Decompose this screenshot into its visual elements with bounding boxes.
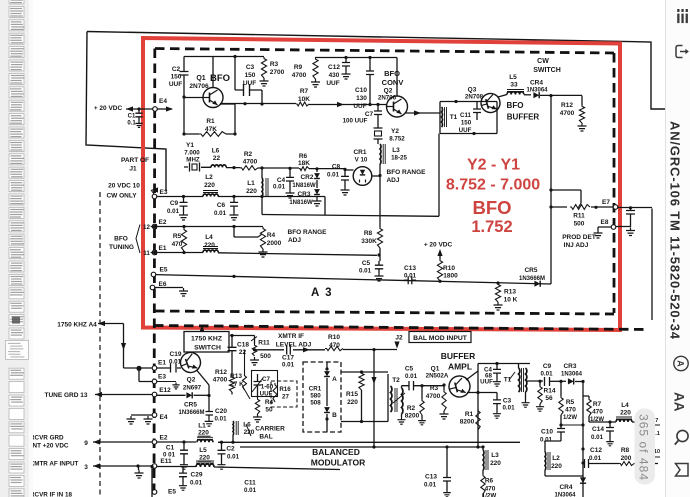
- svg-text:4700: 4700: [426, 393, 441, 400]
- svg-text:365 of 484: 365 of 484: [637, 414, 651, 480]
- svg-text:R8: R8: [364, 230, 373, 237]
- junction: [182, 195, 185, 198]
- wire top rail to Q2 collector: [315, 57, 397, 59]
- svg-text:8200: 8200: [460, 419, 475, 426]
- svg-text:R8: R8: [621, 447, 630, 454]
- wire Q1 box top: [184, 56, 264, 58]
- svg-text:200: 200: [621, 455, 632, 462]
- svg-text:C14: C14: [592, 426, 604, 433]
- svg-text:18K: 18K: [298, 160, 310, 167]
- svg-text:220: 220: [620, 410, 631, 417]
- wire Q1 box left: [183, 90, 185, 134]
- junction: [581, 447, 584, 450]
- svg-text:4700: 4700: [213, 377, 228, 384]
- ground: [536, 404, 544, 411]
- junction: [182, 225, 185, 228]
- svg-text:ANT +20 VDC: ANT +20 VDC: [28, 443, 69, 450]
- svg-text:0.1: 0.1: [127, 121, 136, 127]
- svg-text:220: 220: [204, 242, 215, 249]
- svg-text:Y2: Y2: [391, 128, 399, 135]
- wire E6 to ground: [155, 287, 183, 289]
- svg-text:C20: C20: [215, 408, 227, 415]
- junction: [360, 370, 363, 373]
- svg-text:0.01: 0.01: [540, 437, 553, 444]
- svg-text:L3: L3: [392, 147, 400, 154]
- svg-text:220: 220: [347, 399, 358, 406]
- wire 1750 box to C18/R11: [230, 335, 255, 337]
- junction: [559, 423, 562, 426]
- svg-text:0.01: 0.01: [424, 482, 437, 489]
- svg-text:4700: 4700: [560, 110, 575, 117]
- svg-text:LEVEL ADJ: LEVEL ADJ: [276, 342, 312, 349]
- svg-text:R10: R10: [328, 334, 340, 341]
- svg-text:220: 220: [199, 455, 210, 462]
- svg-text:MHZ: MHZ: [186, 157, 200, 164]
- svg-text:R12: R12: [215, 369, 227, 376]
- svg-text:L1: L1: [247, 180, 255, 187]
- svg-text:C3: C3: [246, 64, 255, 71]
- svg-text:0.01: 0.01: [591, 434, 604, 441]
- ground: [493, 411, 501, 418]
- svg-text:1N3064: 1N3064: [554, 493, 576, 497]
- svg-text:C3: C3: [503, 398, 512, 405]
- ground: [594, 230, 603, 238]
- wire branch to E3 (lower): [139, 368, 152, 381]
- 1750 KHZ SWITCH box: [184, 332, 229, 353]
- svg-text:56: 56: [545, 395, 553, 402]
- svg-text:100 UUF: 100 UUF: [343, 118, 368, 125]
- trimmer C7 (lower): [252, 371, 278, 397]
- svg-text:SWITCH: SWITCH: [194, 345, 221, 352]
- wire T1 secondary out: [526, 380, 543, 382]
- wire Q1buf collector rail: [478, 363, 530, 365]
- junction: [232, 275, 235, 278]
- feedthrough capacitor: [630, 208, 632, 210]
- junction: [233, 55, 236, 58]
- svg-text:C11: C11: [244, 480, 256, 487]
- svg-text:220: 220: [198, 430, 209, 437]
- svg-text:R14: R14: [544, 388, 556, 395]
- junction: [372, 348, 375, 351]
- svg-text:E2: E2: [160, 435, 168, 442]
- outer dashed boundary: [154, 326, 649, 330]
- ground: [493, 379, 501, 386]
- svg-text:E3: E3: [160, 189, 168, 196]
- svg-text:12: 12: [143, 224, 150, 231]
- wire Q2 collector: [396, 58, 398, 97]
- svg-text:0.01: 0.01: [282, 362, 295, 369]
- wire +20VDC to E4: [126, 108, 153, 110]
- svg-text:UUF: UUF: [480, 379, 493, 386]
- ground: [440, 411, 449, 419]
- ground: [311, 79, 320, 87]
- svg-text:500: 500: [574, 221, 585, 228]
- junction: [253, 348, 256, 351]
- wire Q1 base: [184, 97, 203, 99]
- svg-text:R13: R13: [230, 373, 242, 380]
- wire pin3 rail: [93, 466, 340, 470]
- junction: [442, 383, 445, 386]
- svg-text:A: A: [676, 360, 686, 367]
- ground: [313, 198, 322, 206]
- svg-text:Y2 - Y1: Y2 - Y1: [467, 157, 520, 174]
- svg-text:E8: E8: [601, 219, 609, 226]
- svg-text:470: 470: [592, 409, 603, 416]
- terminal E7: [613, 205, 618, 210]
- junction: [476, 391, 479, 394]
- wire main bus Q1-Q2: [220, 104, 386, 105]
- ground: [250, 357, 259, 365]
- terminal E5: [151, 272, 156, 277]
- balanced modulator dashed box: [303, 362, 341, 432]
- svg-text:L3: L3: [491, 452, 499, 459]
- grounds at E4 row: [152, 413, 157, 418]
- svg-text:2N708: 2N708: [465, 94, 484, 101]
- wire 1750kHz to E1: [98, 321, 105, 326]
- svg-text:C1: C1: [128, 114, 136, 120]
- svg-text:L1: L1: [198, 423, 206, 430]
- junction: [454, 100, 457, 103]
- bracket: [136, 225, 140, 254]
- svg-text:CR2: CR2: [300, 174, 313, 181]
- junction: [368, 56, 371, 59]
- svg-text:CR5: CR5: [184, 402, 197, 409]
- svg-text:11: 11: [143, 250, 150, 257]
- svg-text:C13: C13: [425, 474, 437, 481]
- junction: [260, 102, 263, 105]
- ground: [179, 288, 188, 296]
- svg-text:T2: T2: [392, 377, 400, 384]
- svg-text:+ 20 VDC: + 20 VDC: [424, 242, 453, 249]
- svg-text:L2: L2: [205, 174, 213, 181]
- svg-text:150: 150: [245, 72, 256, 79]
- junction: [376, 103, 379, 106]
- svg-text:2N706: 2N706: [378, 95, 397, 102]
- junction: [182, 132, 185, 135]
- svg-text:0.01: 0.01: [502, 405, 515, 412]
- ground: [626, 228, 635, 236]
- wire T1 box to lower rail: [262, 134, 439, 217]
- svg-text:L6: L6: [243, 422, 251, 429]
- svg-text:L2: L2: [552, 455, 560, 462]
- ground: [179, 483, 187, 490]
- junction: [182, 95, 185, 98]
- svg-text:1.752: 1.752: [471, 218, 512, 236]
- junction: [137, 107, 140, 110]
- wire XMTR IF rail: [255, 349, 398, 351]
- junction: [368, 103, 371, 106]
- ground: [342, 71, 351, 79]
- svg-text:580: 580: [310, 393, 321, 400]
- svg-text:Q1: Q1: [196, 75, 205, 82]
- svg-text:SWITCH: SWITCH: [533, 67, 561, 74]
- svg-text:470: 470: [172, 241, 183, 248]
- wire E7 out to page edge: [618, 208, 652, 321]
- junction: [344, 56, 347, 59]
- svg-text:C7: C7: [262, 376, 270, 383]
- wire vertical rail to prod det: [550, 96, 552, 284]
- junction: [495, 362, 498, 365]
- svg-text:C10: C10: [355, 87, 367, 94]
- svg-text:C9: C9: [170, 200, 179, 207]
- wire Q2 emitter to C20 node: [197, 371, 209, 397]
- svg-text:CR4: CR4: [559, 484, 572, 491]
- junction: [233, 132, 236, 135]
- connector J1 dashed line: [99, 192, 101, 497]
- wire bottom rail w/ C12 and R8: [583, 463, 584, 465]
- svg-text:ADJ: ADJ: [288, 237, 301, 244]
- svg-text:22: 22: [239, 349, 247, 356]
- junction: [549, 205, 552, 208]
- ground: [135, 121, 142, 127]
- svg-text:220: 220: [551, 463, 562, 470]
- junction: [481, 445, 484, 448]
- svg-text:R16: R16: [279, 386, 291, 393]
- svg-text:0.01: 0.01: [405, 373, 418, 380]
- wire T1-C11 box: [440, 102, 497, 134]
- svg-text:CONV: CONV: [382, 78, 404, 87]
- red annotation box: [143, 38, 620, 330]
- page count pill: [635, 409, 656, 485]
- svg-text:R5: R5: [173, 233, 182, 240]
- svg-text:Q2: Q2: [187, 377, 196, 384]
- junction: [472, 132, 475, 135]
- junction: [360, 420, 363, 423]
- terminal E6: [150, 285, 155, 290]
- terminal E5 (lower): [152, 490, 157, 495]
- svg-text:E11: E11: [160, 458, 172, 465]
- svg-text:0.01: 0.01: [190, 480, 203, 487]
- svg-text:3: 3: [84, 464, 88, 471]
- svg-text:CR1: CR1: [353, 149, 366, 156]
- junction: [136, 366, 141, 371]
- svg-text:1N3064: 1N3064: [526, 88, 548, 94]
- junction: [378, 174, 381, 177]
- junction: [372, 445, 375, 448]
- svg-text:L4: L4: [621, 402, 629, 409]
- svg-text:R11: R11: [258, 340, 270, 347]
- svg-text:J2: J2: [395, 335, 403, 342]
- svg-text:0.01: 0.01: [540, 371, 553, 378]
- svg-text:TUNING: TUNING: [109, 244, 134, 251]
- svg-text:220: 220: [204, 182, 215, 189]
- svg-text:R7: R7: [300, 88, 309, 95]
- ground: [253, 414, 262, 422]
- svg-text:R15: R15: [346, 391, 358, 398]
- junction: [549, 188, 552, 191]
- svg-text:C17: C17: [282, 355, 294, 362]
- wire pin10 to E3: [151, 187, 158, 192]
- svg-text:R5: R5: [566, 399, 575, 406]
- terminal E11: [152, 464, 157, 469]
- svg-text:CW: CW: [537, 58, 549, 65]
- svg-text:0.01: 0.01: [214, 210, 227, 217]
- junction: [594, 206, 597, 209]
- terminal E3: [152, 194, 157, 199]
- svg-text:E1: E1: [158, 360, 166, 367]
- svg-text:1N816W: 1N816W: [292, 183, 316, 189]
- svg-text:CR5: CR5: [524, 267, 537, 274]
- ground: [180, 462, 188, 469]
- svg-text:BFO RANGE: BFO RANGE: [387, 169, 427, 176]
- svg-text:BFO: BFO: [384, 69, 400, 78]
- svg-text:R11: R11: [573, 213, 585, 220]
- junction: [243, 102, 246, 105]
- svg-text:CR3: CR3: [563, 363, 576, 370]
- wire Q2sw collector up: [190, 351, 192, 354]
- wire bottom rail: [240, 446, 484, 448]
- junction: [420, 384, 423, 387]
- ground: [606, 439, 614, 446]
- svg-text:L5: L5: [509, 74, 517, 81]
- terminal E1: [152, 250, 157, 255]
- svg-text:UUF: UUF: [459, 127, 472, 134]
- svg-text:R3: R3: [270, 61, 279, 68]
- wire pin9 rail: [93, 441, 520, 443]
- svg-text:27: 27: [282, 394, 289, 401]
- svg-text:1-60: 1-60: [261, 384, 274, 391]
- A3 module dashed border: [155, 49, 614, 54]
- junction: [377, 253, 380, 256]
- terminal E1 (lower): [152, 366, 157, 371]
- svg-text:E7: E7: [602, 199, 610, 206]
- svg-text:R10: R10: [443, 265, 455, 272]
- svg-text:XMTR IF: XMTR IF: [278, 333, 304, 340]
- svg-text:BUFFER: BUFFER: [507, 113, 540, 122]
- svg-text:4700: 4700: [243, 159, 258, 166]
- svg-text:0.01: 0.01: [404, 273, 417, 280]
- svg-text:C12: C12: [590, 447, 602, 454]
- svg-text:TUNE GRD 13: TUNE GRD 13: [45, 392, 88, 399]
- transformer T1: [442, 107, 443, 127]
- svg-text:R1: R1: [465, 411, 474, 418]
- svg-text:E2: E2: [159, 219, 167, 226]
- svg-text:430: 430: [329, 72, 340, 79]
- svg-text:T1: T1: [450, 114, 458, 121]
- svg-text:0.01: 0.01: [273, 184, 286, 191]
- svg-text:150: 150: [461, 120, 472, 127]
- svg-text:0.01: 0.01: [244, 487, 257, 494]
- svg-text:MODULATOR: MODULATOR: [311, 458, 365, 468]
- share icon: [676, 46, 683, 58]
- svg-text:C19: C19: [170, 351, 182, 358]
- junction: [325, 417, 328, 420]
- ground: [230, 212, 239, 220]
- svg-text:R9: R9: [294, 64, 303, 71]
- svg-text:1N3666M: 1N3666M: [519, 276, 545, 282]
- svg-text:2700: 2700: [270, 69, 285, 76]
- viewer thumbnail sidebar: [0, 0, 29, 497]
- junction: [496, 281, 499, 284]
- junction: [231, 441, 234, 444]
- wire E7 injection: [551, 206, 613, 208]
- ground: [179, 212, 188, 220]
- wire stub y425: [561, 424, 583, 426]
- capacitor C17 inline: [287, 345, 291, 355]
- wire R11 wiper stub: [551, 190, 581, 203]
- svg-text:0.01: 0.01: [167, 208, 180, 215]
- wire Q2 emitter to T1: [405, 112, 440, 114]
- svg-text:BFO RANGE: BFO RANGE: [288, 229, 328, 236]
- junction: [629, 206, 632, 209]
- junction: [232, 166, 235, 169]
- svg-text:CR4: CR4: [530, 80, 543, 87]
- ground: [494, 302, 503, 310]
- svg-text:E1: E1: [159, 245, 167, 252]
- terminal E8: [611, 225, 616, 230]
- junction: [581, 461, 584, 464]
- svg-text:9: 9: [84, 440, 88, 447]
- svg-text:BFO: BFO: [114, 236, 128, 243]
- svg-text:220: 220: [244, 429, 255, 436]
- svg-text:220: 220: [490, 460, 501, 467]
- bookmark icon: [676, 464, 689, 477]
- svg-text:J1: J1: [129, 166, 137, 173]
- svg-text:UUF: UUF: [353, 103, 366, 110]
- junction: [182, 440, 185, 443]
- ground: [286, 190, 295, 198]
- terminal E3 (lower): [152, 379, 157, 384]
- svg-text:R12: R12: [561, 102, 573, 109]
- svg-text:C6: C6: [217, 202, 226, 209]
- wire vertical from J2 rail: [373, 349, 375, 448]
- terminal E2 (lower): [152, 440, 157, 445]
- svg-text:R4: R4: [267, 232, 276, 239]
- svg-text:1N816W: 1N816W: [289, 200, 313, 206]
- svg-text:PART OF: PART OF: [121, 157, 149, 164]
- ground: [522, 400, 530, 407]
- ground: [135, 470, 144, 478]
- svg-text:A 3: A 3: [311, 287, 333, 299]
- diode B: [326, 378, 328, 406]
- junction: [136, 464, 139, 467]
- junction: [232, 225, 235, 228]
- ground: [578, 123, 587, 131]
- junction: [343, 168, 346, 171]
- svg-text:18-25: 18-25: [391, 155, 407, 162]
- junction: [230, 334, 233, 337]
- circled A icon: [674, 356, 688, 370]
- svg-text:C9: C9: [543, 363, 552, 370]
- svg-text:1N3064: 1N3064: [561, 372, 583, 378]
- wire Q1 box right: [234, 104, 236, 134]
- wire Q1 collector: [212, 57, 214, 89]
- svg-text:C2: C2: [226, 446, 235, 453]
- svg-text:R4: R4: [265, 399, 274, 406]
- wire E1 to Q2 base: [157, 367, 181, 369]
- junction: [325, 367, 328, 370]
- junction: [559, 380, 562, 383]
- svg-text:E5: E5: [160, 267, 168, 274]
- junction: [207, 394, 210, 397]
- wire Q1buf emitter: [467, 364, 478, 448]
- svg-text:Q3: Q3: [468, 87, 477, 94]
- svg-text:C12: C12: [328, 64, 340, 71]
- ground: [260, 78, 269, 86]
- junction: [581, 423, 584, 426]
- ground: [127, 416, 136, 424]
- svg-text:C10: C10: [541, 429, 553, 436]
- junction: [476, 445, 479, 448]
- svg-text:B: B: [332, 412, 337, 419]
- wire E2 row: [157, 226, 263, 228]
- svg-text:8.752 - 7.000: 8.752 - 7.000: [446, 177, 540, 194]
- wire E5 long rail: [156, 275, 551, 284]
- svg-text:BAL MOD INPUT: BAL MOD INPUT: [413, 335, 468, 342]
- ground: [397, 417, 405, 424]
- junction: [220, 441, 223, 444]
- wire E3 row: [157, 197, 325, 216]
